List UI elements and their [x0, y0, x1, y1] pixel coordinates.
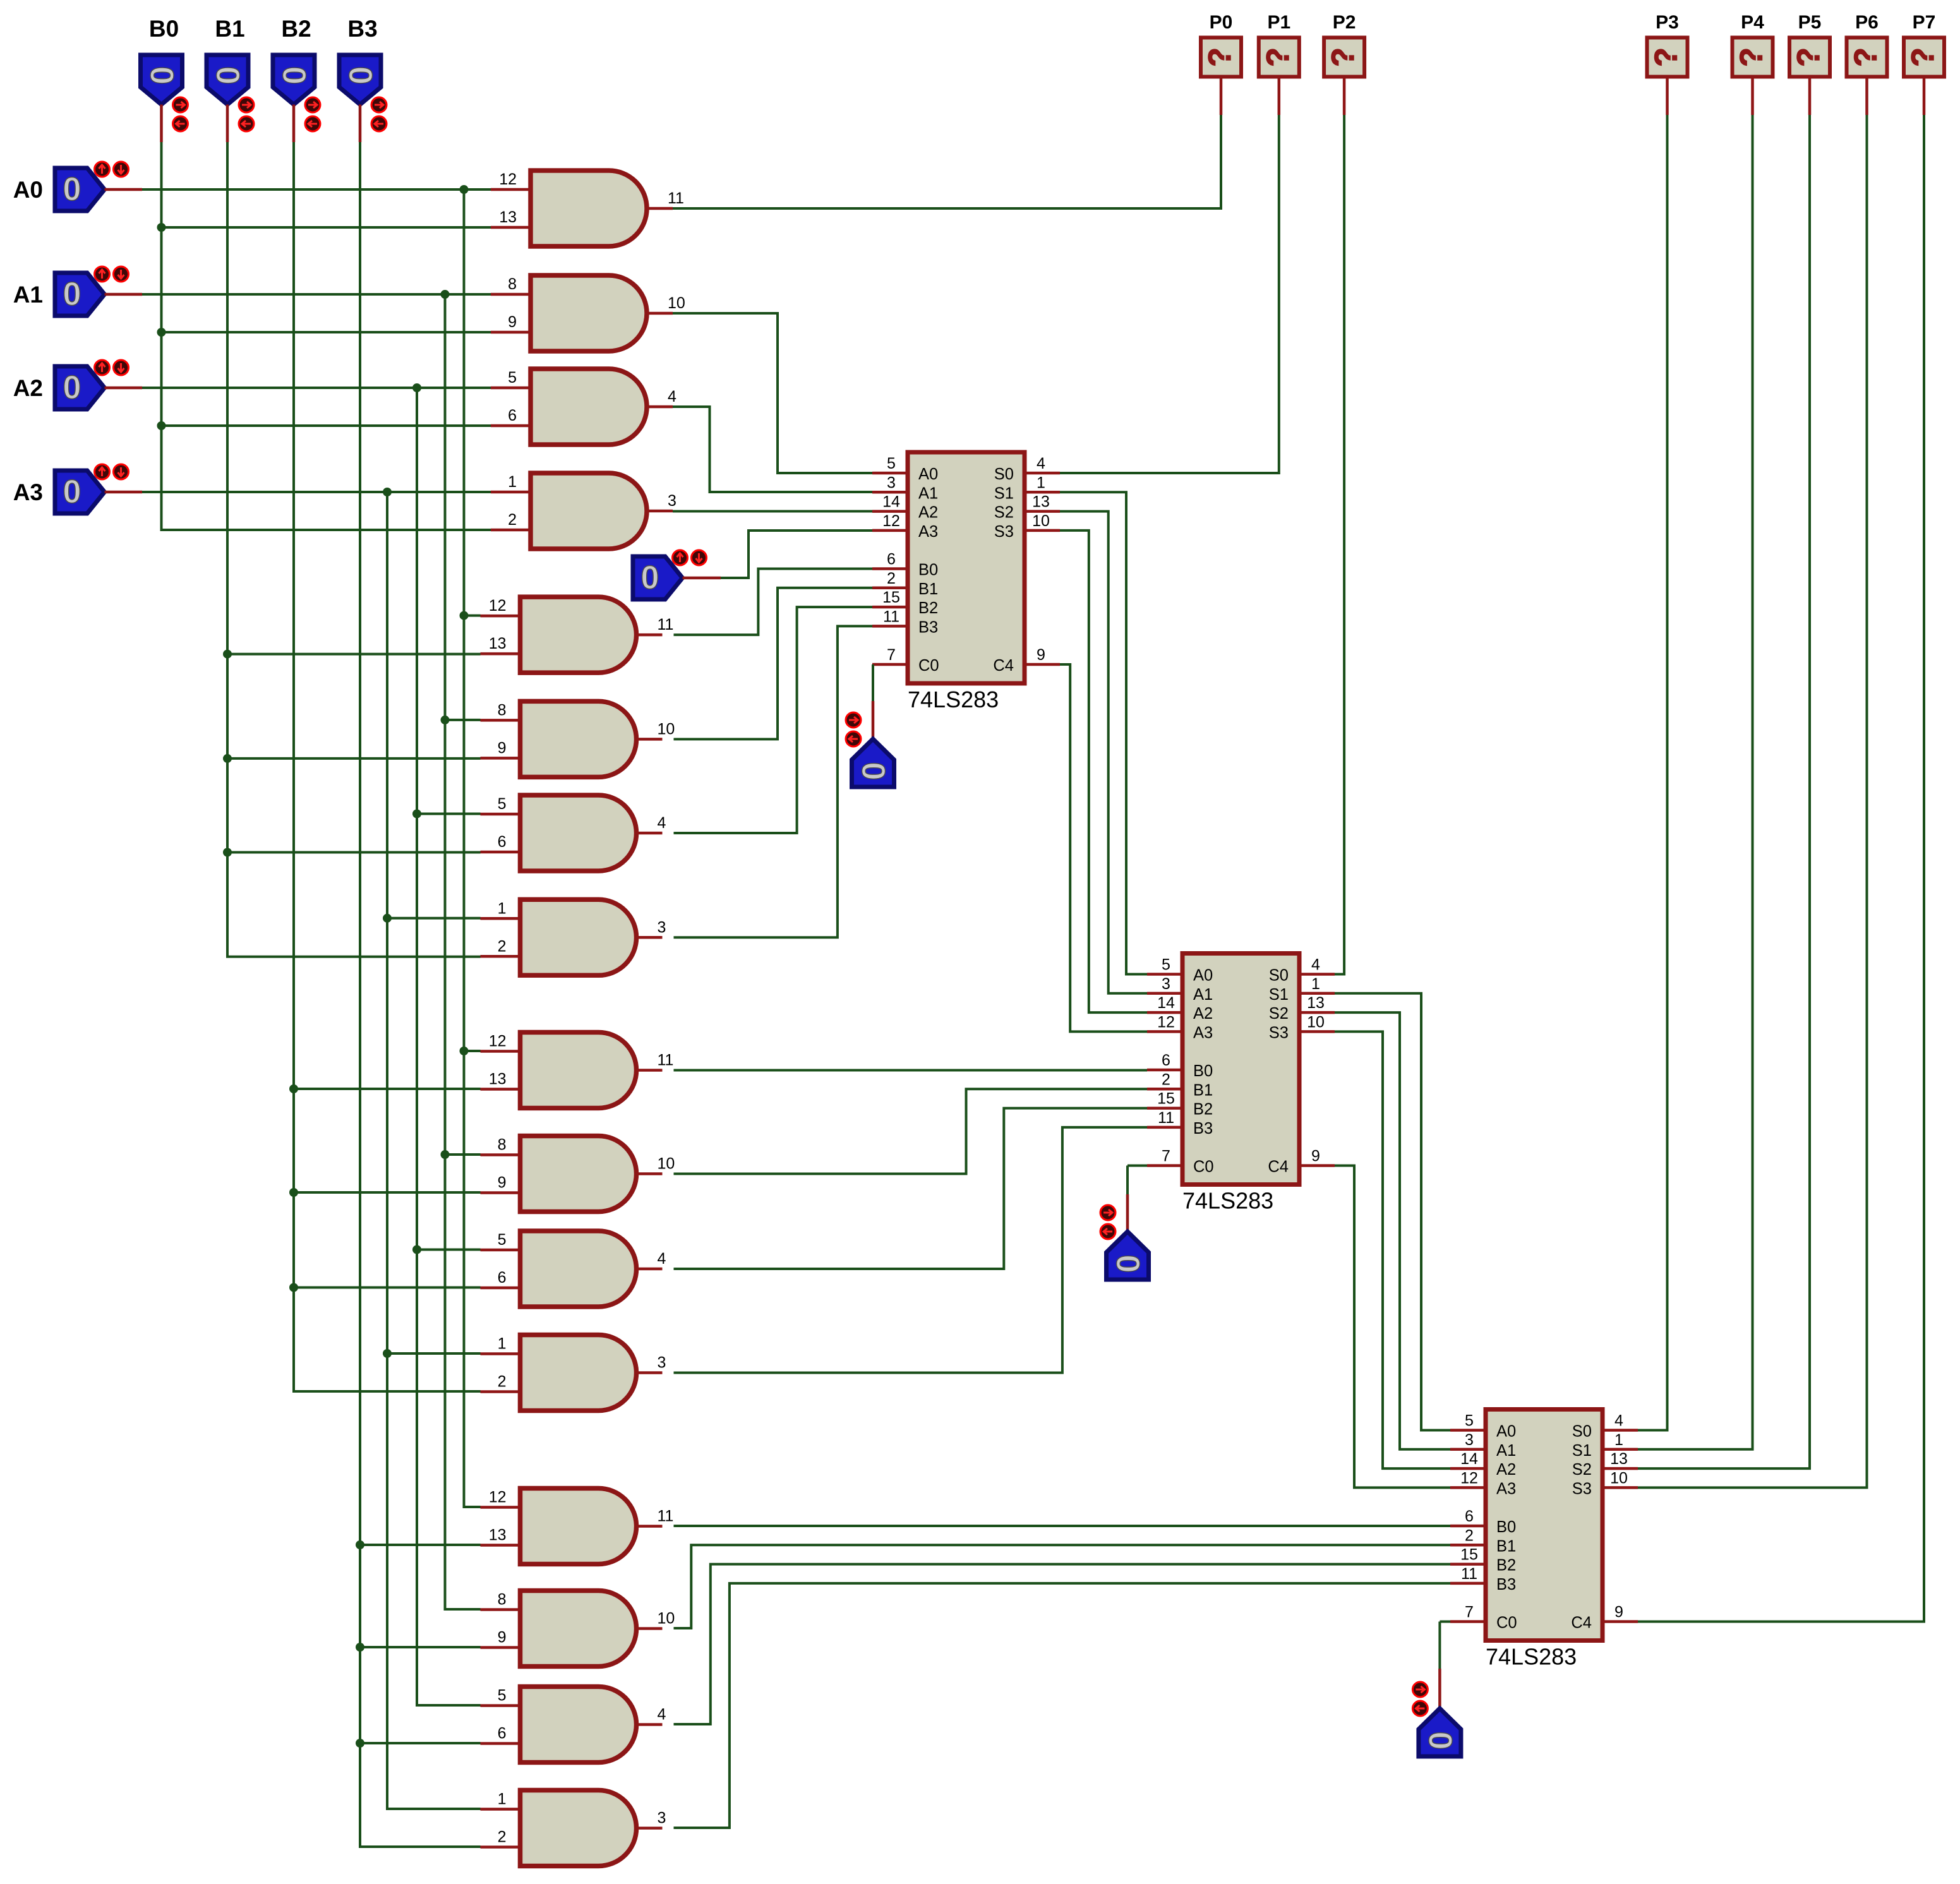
svg-text:S2: S2 [994, 504, 1014, 522]
probe P1 stub [1278, 77, 1281, 116]
svg-text:?: ? [1649, 47, 1684, 67]
junction net B1 tap 1 [223, 754, 232, 763]
svg-text:B3: B3 [918, 618, 938, 636]
IC U19 pin 5 (A0) stub [1450, 1429, 1486, 1432]
wire net B1 to gate row 1 [227, 757, 481, 760]
gate U9 output pin 11 stub [637, 1069, 663, 1072]
svg-text:0: 0 [855, 762, 891, 781]
svg-text:?: ? [1325, 47, 1361, 67]
IC U17 pin 15 (B2) stub [872, 606, 908, 609]
logic state B0 (0) [141, 55, 183, 105]
logic state U18-C0-const (0) [1107, 1232, 1149, 1280]
svg-text:10: 10 [658, 1610, 675, 1628]
toggle button U17-C0-const toggle right [846, 712, 861, 728]
svg-text:B1: B1 [1193, 1081, 1213, 1099]
svg-text:5: 5 [1465, 1412, 1474, 1430]
svg-text:3: 3 [658, 918, 666, 936]
gate U7 input pin 6 stub [481, 851, 520, 854]
IC U17 pin 13 (S2) stub [1025, 510, 1060, 513]
svg-text:1: 1 [508, 473, 517, 491]
junction net B3 tap 0 [356, 1540, 364, 1549]
toggle button A1 toggle up [95, 267, 110, 282]
svg-text:A2: A2 [13, 375, 43, 401]
svg-text:2: 2 [498, 937, 507, 955]
AND gate U15 (A2 AND B3) [520, 1687, 637, 1763]
gate U11 output pin 4 stub [637, 1268, 663, 1271]
svg-text:2: 2 [508, 511, 517, 529]
svg-text:C4: C4 [1571, 1614, 1592, 1632]
svg-text:12: 12 [489, 597, 507, 615]
gate U1 output pin 11 stub [647, 207, 673, 210]
wire net A2 to group2 gate [417, 813, 481, 815]
svg-text:P7: P7 [1913, 12, 1936, 33]
gate U15 input pin 6 stub [481, 1742, 520, 1745]
logic state U18-C0-const stub [1126, 1194, 1129, 1232]
gate U7 output pin 4 stub [637, 832, 663, 835]
toggle button U17-C0-const toggle left [846, 731, 861, 747]
svg-text:A3: A3 [1496, 1480, 1516, 1497]
toggle button A0 toggle down [114, 162, 129, 177]
wire net const0 to U19 C0 horizontal [1440, 1621, 1450, 1623]
wire net A1 row [142, 293, 491, 296]
svg-text:12: 12 [489, 1033, 507, 1050]
svg-text:5: 5 [498, 1231, 507, 1249]
svg-text:A2: A2 [1193, 1005, 1213, 1023]
AND gate U4 (A3 AND B0) [531, 473, 647, 549]
junction net A3 tap group3 [383, 1349, 392, 1358]
logic probe P3 [1647, 38, 1688, 77]
logic probe P2 [1324, 38, 1364, 77]
svg-text:5: 5 [1162, 956, 1170, 974]
svg-text:8: 8 [498, 1136, 507, 1154]
wire net A1 to group3 gate [445, 1153, 481, 1156]
AND gate U10 (A1 AND B2) [520, 1136, 637, 1212]
wire net A3 drop vertical [387, 492, 481, 1809]
svg-text:9: 9 [498, 1174, 507, 1192]
svg-text:9: 9 [1614, 1604, 1623, 1621]
wire net B2 to gate row 0 [294, 1088, 481, 1090]
logic state B3 stub [359, 105, 362, 143]
gate U12 input pin 1 stub [481, 1352, 520, 1355]
toggle button U19-C0-const toggle left [1412, 1701, 1428, 1716]
logic state B1 (0) [207, 55, 248, 105]
wire net U4 out to U17 A2 [673, 510, 872, 513]
junction net B1 tap 0 [223, 650, 232, 659]
wire net A0 row [142, 188, 491, 191]
svg-text:6: 6 [498, 833, 507, 851]
gate U11 input pin 5 stub [481, 1249, 520, 1252]
junction net B2 tap 0 [289, 1084, 298, 1093]
logic probe P1 [1259, 38, 1299, 77]
svg-text:7: 7 [887, 646, 896, 664]
svg-text:B1: B1 [215, 16, 244, 42]
wire net U14 out to U19 B1 [674, 1545, 1451, 1628]
svg-text:0: 0 [143, 66, 180, 85]
IC U17 pin 11 (B3) stub [872, 625, 908, 628]
IC U17 74LS283 body [908, 452, 1025, 683]
gate U6 input pin 9 stub [481, 757, 520, 760]
wire net B3 to gate row 1 [360, 1646, 481, 1648]
wire net P6 (U19 S3 to probe P6) [1638, 115, 1867, 1487]
IC U19 pin 7 (C0) stub [1450, 1620, 1486, 1623]
svg-text:S2: S2 [1572, 1461, 1592, 1479]
logic state A2 (0) [55, 366, 105, 409]
toggle button B2 toggle left [305, 116, 320, 131]
svg-text:A0: A0 [918, 465, 938, 483]
svg-text:0: 0 [1421, 1732, 1458, 1750]
AND gate U6 (A1 AND B1) [520, 701, 637, 777]
gate U3 input pin 5 stub [491, 387, 531, 390]
svg-text:10: 10 [658, 1155, 675, 1173]
svg-text:13: 13 [1610, 1450, 1628, 1468]
svg-text:3: 3 [668, 492, 676, 510]
toggle button U18-C0-const toggle right [1100, 1205, 1115, 1220]
svg-text:C0: C0 [918, 657, 939, 675]
wire net const0 to U18 C0 horizontal [1127, 1165, 1147, 1167]
svg-text:3: 3 [658, 1809, 666, 1827]
wire net U16 out to U19 B3 [674, 1583, 1451, 1828]
svg-text:B3: B3 [1496, 1576, 1516, 1593]
svg-text:4: 4 [668, 388, 676, 405]
wire net U13 out to U19 B0 [674, 1525, 1451, 1527]
svg-text:?: ? [1905, 47, 1940, 67]
svg-text:S0: S0 [994, 465, 1014, 483]
svg-text:S1: S1 [994, 484, 1014, 502]
svg-text:13: 13 [499, 208, 517, 226]
junction net B1 tap 2 [223, 848, 232, 857]
svg-text:1: 1 [498, 1335, 507, 1353]
IC U19 pin 2 (B1) stub [1450, 1544, 1486, 1547]
svg-text:8: 8 [498, 701, 507, 719]
logic probe P6 [1847, 38, 1887, 77]
svg-text:B0: B0 [1193, 1062, 1213, 1080]
logic probe P0 [1201, 38, 1241, 77]
svg-text:C0: C0 [1193, 1158, 1214, 1176]
logic state B1 stub [226, 105, 229, 143]
junction net A1 tap group2 [441, 716, 450, 724]
IC U19 pin 14 (A2) stub [1450, 1467, 1486, 1470]
logic state B2 stub [292, 105, 296, 143]
wire net U5 out to U17 B0 [674, 569, 873, 635]
svg-text:8: 8 [498, 1591, 507, 1609]
svg-text:P2: P2 [1333, 12, 1356, 33]
svg-text:12: 12 [882, 512, 900, 530]
wire net U17 C4 to U18 A3 [1060, 664, 1147, 1031]
AND gate U12 (A3 AND B2) [520, 1335, 637, 1411]
svg-text:4: 4 [658, 1250, 666, 1268]
gate U4 output pin 3 stub [647, 510, 673, 513]
svg-text:13: 13 [1032, 493, 1050, 511]
svg-text:?: ? [1791, 47, 1826, 67]
svg-text:1: 1 [1614, 1431, 1623, 1449]
IC U18 pin 4 (S0) stub [1299, 973, 1335, 976]
svg-text:0: 0 [63, 369, 81, 406]
svg-text:14: 14 [1460, 1450, 1478, 1468]
IC U18 pin 1 (S1) stub [1299, 992, 1335, 995]
IC U19 pin 11 (B3) stub [1450, 1582, 1486, 1585]
svg-text:11: 11 [668, 189, 684, 207]
svg-text:A2: A2 [1496, 1461, 1516, 1479]
svg-text:14: 14 [1157, 994, 1175, 1012]
gate U14 output pin 10 stub [637, 1627, 663, 1630]
AND gate U5 (A0 AND B1) [520, 597, 637, 673]
svg-text:0: 0 [63, 171, 81, 208]
svg-text:6: 6 [1465, 1508, 1474, 1525]
wire net A2 row [142, 387, 491, 389]
probe P0 stub [1220, 77, 1223, 116]
wire net A0 drop vertical [464, 189, 481, 1507]
svg-text:4: 4 [658, 814, 666, 832]
gate U8 input pin 1 stub [481, 917, 520, 920]
svg-text:74LS283: 74LS283 [1486, 1644, 1577, 1670]
AND gate U2 (A1 AND B0) [531, 275, 647, 351]
junction net B2 tap 1 [289, 1188, 298, 1197]
svg-text:8: 8 [508, 275, 517, 293]
wire net A2 to group3 gate [417, 1249, 481, 1251]
svg-text:S1: S1 [1572, 1442, 1592, 1460]
gate U2 input pin 8 stub [491, 293, 531, 296]
IC U17 pin 3 (A1) stub [872, 491, 908, 494]
svg-text:0: 0 [275, 66, 312, 85]
IC U18 pin 14 (A2) stub [1147, 1011, 1182, 1014]
svg-text:10: 10 [668, 294, 685, 312]
wire net U11 out to U18 B2 [674, 1108, 1148, 1269]
wire net B0 to gate row 0 [162, 226, 491, 229]
AND gate U7 (A2 AND B1) [520, 795, 637, 871]
svg-text:5: 5 [508, 369, 517, 387]
gate U2 output pin 10 stub [647, 312, 673, 315]
logic state A1 stub [105, 293, 143, 296]
wire net B0 to gate row 1 [162, 331, 491, 333]
svg-text:11: 11 [1158, 1109, 1174, 1127]
svg-text:4: 4 [1311, 956, 1320, 974]
logic state B0 stub [160, 105, 163, 143]
svg-text:1: 1 [498, 1791, 507, 1808]
junction net A2 tap group3 [412, 1245, 421, 1254]
wire net A2 drop vertical [417, 388, 481, 1705]
wire net U10 out to U18 B1 [674, 1089, 1148, 1173]
probe P5 stub [1808, 77, 1812, 116]
wire net U18 S3 to U19 A2 [1335, 1031, 1450, 1468]
gate U3 output pin 4 stub [647, 405, 673, 409]
toggle button B2 toggle right [305, 97, 320, 112]
wire net U6 out to U17 B1 [674, 588, 873, 740]
svg-text:P0: P0 [1210, 12, 1233, 33]
IC U18 pin 11 (B3) stub [1147, 1126, 1182, 1129]
probe P3 stub [1666, 77, 1669, 116]
svg-text:B2: B2 [281, 16, 311, 42]
wire net B0 to gate row 2 [162, 424, 491, 427]
IC U19 pin 3 (A1) stub [1450, 1448, 1486, 1451]
svg-text:11: 11 [1461, 1565, 1477, 1583]
gate U9 input pin 13 stub [481, 1088, 520, 1091]
wire net P4 (U19 S1 to probe P4) [1638, 115, 1753, 1449]
wire net B1 column [227, 142, 481, 957]
gate U14 input pin 9 stub [481, 1646, 520, 1649]
IC U19 pin 13 (S2) stub [1602, 1467, 1638, 1470]
wire net P2 (U18 S0 to probe P2) [1335, 115, 1344, 975]
svg-text:6: 6 [887, 551, 896, 568]
IC U17 pin 10 (S3) stub [1025, 529, 1060, 532]
svg-text:9: 9 [498, 739, 507, 757]
wire net B2 column [294, 142, 481, 1391]
svg-text:C4: C4 [1268, 1158, 1289, 1176]
probe P6 stub [1865, 77, 1868, 116]
wire net P0 (gate U1 out to probe P0) [673, 115, 1221, 208]
svg-text:?: ? [1734, 47, 1769, 67]
wire net B2 to gate row 1 [294, 1191, 481, 1194]
wire net A3 to group3 gate [387, 1352, 481, 1355]
IC U18 pin 15 (B2) stub [1147, 1107, 1182, 1110]
logic state A0 stub [105, 188, 143, 191]
IC U18 74LS283 body [1182, 954, 1299, 1185]
svg-text:9: 9 [1311, 1148, 1320, 1165]
svg-text:B3: B3 [347, 16, 377, 42]
svg-text:5: 5 [887, 455, 896, 472]
AND gate U13 (A0 AND B3) [520, 1489, 637, 1564]
svg-text:10: 10 [1307, 1013, 1325, 1031]
svg-text:S3: S3 [1269, 1024, 1289, 1041]
junction net A0 drop [460, 185, 469, 194]
wire net U15 out to U19 B2 [674, 1564, 1451, 1724]
IC U17 pin 1 (S1) stub [1025, 491, 1060, 494]
logic state A3 stub [105, 491, 143, 494]
wire net B3 to gate row 0 [360, 1544, 481, 1546]
svg-text:11: 11 [658, 1052, 674, 1069]
junction net A2 tap group2 [412, 810, 421, 819]
svg-text:74LS283: 74LS283 [1182, 1188, 1273, 1214]
wire net U3 out to U17 A1 [673, 407, 872, 492]
svg-text:?: ? [1202, 47, 1237, 67]
svg-text:2: 2 [1162, 1071, 1170, 1088]
svg-text:S0: S0 [1572, 1423, 1592, 1441]
svg-text:A0: A0 [13, 177, 43, 203]
IC U19 pin 15 (B2) stub [1450, 1563, 1486, 1566]
svg-text:11: 11 [658, 1508, 674, 1525]
gate U5 output pin 11 stub [637, 633, 663, 637]
AND gate U1 (A0 AND B0) [531, 171, 647, 246]
wire net B1 to gate row 0 [227, 653, 481, 656]
svg-text:10: 10 [658, 720, 675, 738]
svg-text:15: 15 [1157, 1090, 1175, 1108]
svg-text:S0: S0 [1269, 967, 1289, 985]
wire net B3 to gate row 2 [360, 1742, 481, 1744]
toggle button B1 toggle right [239, 97, 254, 112]
svg-text:0: 0 [1109, 1255, 1146, 1273]
svg-text:3: 3 [1162, 975, 1170, 993]
svg-text:B2: B2 [918, 599, 938, 617]
AND gate U3 (A2 AND B0) [531, 369, 647, 445]
gate U13 input pin 12 stub [481, 1506, 520, 1509]
gate U13 input pin 13 stub [481, 1544, 520, 1547]
gate U8 input pin 2 stub [481, 955, 520, 958]
logic state A0 (0) [55, 168, 105, 211]
svg-text:4: 4 [1037, 455, 1045, 472]
logic state A3 (0) [55, 471, 105, 513]
svg-text:A3: A3 [1193, 1024, 1213, 1041]
svg-text:15: 15 [882, 589, 900, 606]
svg-text:1: 1 [1311, 975, 1320, 993]
svg-text:C4: C4 [993, 657, 1014, 675]
toggle button U19-C0-const toggle right [1412, 1682, 1428, 1697]
gate U5 input pin 12 stub [481, 615, 520, 618]
wire net B3 column [360, 142, 481, 1847]
svg-text:S2: S2 [1269, 1005, 1289, 1023]
junction net A0 tap group2 [460, 611, 469, 620]
svg-text:2: 2 [887, 570, 896, 587]
svg-text:A0: A0 [1496, 1423, 1516, 1441]
svg-text:7: 7 [1465, 1604, 1474, 1621]
svg-text:A3: A3 [13, 479, 43, 505]
svg-text:B1: B1 [918, 580, 938, 598]
gate U10 input pin 9 stub [481, 1191, 520, 1194]
logic state U17-C0-const stub [872, 701, 875, 739]
svg-text:10: 10 [1610, 1469, 1628, 1487]
svg-text:14: 14 [882, 493, 900, 511]
wire net U17 S1 to U18 A0 [1060, 492, 1147, 974]
svg-text:6: 6 [508, 407, 517, 424]
svg-text:B0: B0 [918, 561, 938, 579]
wire net const0 to U19 C0 vertical [1438, 1622, 1441, 1669]
svg-text:3: 3 [658, 1354, 666, 1372]
gate U12 output pin 3 stub [637, 1371, 663, 1374]
gate U9 input pin 12 stub [481, 1050, 520, 1053]
IC U18 pin 7 (C0) stub [1147, 1164, 1182, 1167]
svg-text:5: 5 [498, 1687, 507, 1705]
junction net B0 tap 0 [157, 223, 166, 232]
gate U3 input pin 6 stub [491, 424, 531, 428]
junction net A3 tap group2 [383, 914, 392, 923]
svg-text:3: 3 [1465, 1431, 1474, 1449]
toggle button A2 toggle up [95, 360, 110, 375]
toggle button B1 toggle left [239, 116, 254, 131]
svg-text:9: 9 [508, 313, 517, 331]
IC U19 74LS283 body [1486, 1410, 1602, 1641]
wire net U9 out to U18 B0 [674, 1069, 1148, 1072]
svg-text:P1: P1 [1267, 12, 1290, 33]
svg-text:0: 0 [209, 66, 246, 85]
logic state U19-C0-const (0) [1419, 1708, 1461, 1756]
toggle button B3 toggle left [371, 116, 387, 131]
junction net A0 tap group3 [460, 1047, 469, 1055]
toggle button B3 toggle right [371, 97, 387, 112]
gate U10 output pin 10 stub [637, 1172, 663, 1175]
logic probe P4 [1733, 38, 1773, 77]
svg-text:B1: B1 [1496, 1537, 1516, 1555]
IC U18 pin 12 (A3) stub [1147, 1030, 1182, 1033]
IC U19 pin 9 (C4) stub [1602, 1620, 1638, 1623]
svg-text:3: 3 [887, 474, 896, 491]
AND gate U8 (A3 AND B1) [520, 899, 637, 975]
logic state U17-A3-const (0) [633, 556, 683, 599]
svg-text:P4: P4 [1741, 12, 1764, 33]
svg-text:1: 1 [498, 899, 507, 917]
logic state A2 stub [105, 387, 143, 390]
wire net A0 to group2 gate [464, 615, 481, 617]
AND gate U14 (A1 AND B3) [520, 1591, 637, 1667]
wire net A3 row [142, 491, 491, 493]
svg-text:4: 4 [658, 1706, 666, 1724]
gate U12 input pin 2 stub [481, 1390, 520, 1393]
logic state U17-C0-const (0) [852, 739, 894, 787]
wire net A3 to group2 gate [387, 917, 481, 920]
logic state B2 (0) [273, 55, 315, 105]
svg-text:C0: C0 [1496, 1614, 1517, 1632]
logic state B3 (0) [339, 55, 381, 105]
svg-text:6: 6 [498, 1725, 507, 1743]
wire net A1 to group2 gate [445, 719, 481, 721]
toggle button A3 toggle down [114, 464, 129, 479]
